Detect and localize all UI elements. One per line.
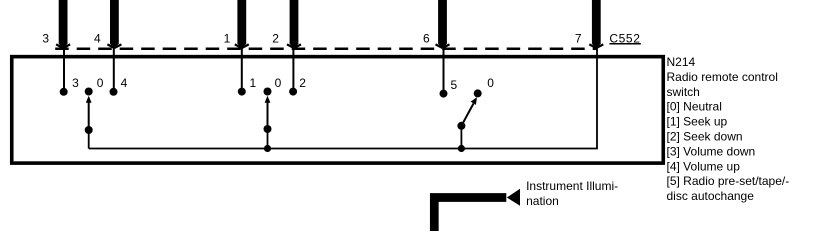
junction dot group 2 common — [264, 145, 271, 152]
svg-text:nation: nation — [526, 194, 559, 208]
svg-text:0: 0 — [97, 76, 104, 90]
wire pin 2 (thick bar) — [287, 0, 301, 48]
svg-text:[5] Radio pre-set/tape/-: [5] Radio pre-set/tape/- — [667, 174, 790, 188]
svg-text:3: 3 — [72, 76, 79, 90]
wire pin 7 (thick bar) — [589, 0, 603, 48]
wire stub pin 4 — [113, 48, 115, 92]
contact dot 0 group 2 — [264, 88, 272, 96]
junction dot group 3 wiper — [457, 122, 465, 130]
svg-text:[3] Volume down: [3] Volume down — [667, 144, 756, 158]
connector C552 dashed line — [55, 48, 597, 51]
wire pin 6 (thick bar) — [436, 0, 450, 48]
svg-text:switch: switch — [667, 85, 700, 99]
svg-text:[0] Neutral: [0] Neutral — [667, 100, 722, 114]
svg-text:0: 0 — [275, 76, 282, 90]
junction dot group 1 wiper — [85, 126, 93, 134]
wire stub pin 1 — [241, 48, 243, 92]
svg-text:0: 0 — [487, 76, 494, 90]
junction dot group 2 wiper — [264, 125, 272, 133]
svg-text:5: 5 — [451, 78, 458, 92]
svg-text:2: 2 — [299, 76, 306, 90]
svg-text:[1] Seek up: [1] Seek up — [667, 115, 728, 129]
svg-text:6: 6 — [423, 31, 430, 45]
component label N214 text block — [667, 55, 790, 203]
wiper arrow group 1 — [86, 96, 92, 130]
wire group 3 wiper to common — [460, 126, 462, 149]
svg-text:4: 4 — [94, 31, 101, 45]
contact dot 0 group 1 — [85, 88, 93, 96]
svg-text:[4] Volume up: [4] Volume up — [667, 159, 741, 173]
svg-text:[2] Seek down: [2] Seek down — [667, 130, 743, 144]
svg-text:4: 4 — [121, 76, 128, 90]
svg-text:disc autochange: disc autochange — [667, 189, 755, 203]
contact dot 4 — [110, 88, 118, 96]
wire stub pin 3 — [63, 48, 65, 92]
label instrument illumination — [526, 179, 618, 208]
contact dot 5 — [440, 90, 448, 98]
wire pin 4 (thick bar) — [107, 0, 121, 48]
wire group 2 wiper to common — [267, 129, 269, 149]
wiper arrow group 2 — [265, 96, 271, 129]
wire instrument illumination (thick L) — [434, 198, 506, 232]
contact dot 2 — [289, 88, 297, 96]
svg-text:1: 1 — [224, 31, 231, 45]
svg-text:7: 7 — [575, 31, 582, 45]
wire group 1 wiper to common — [88, 130, 90, 149]
switch box N214 — [12, 57, 664, 163]
common wire to pin 7 — [89, 48, 597, 149]
wiper arrow group 3 (diagonal) — [461, 97, 477, 126]
wire stub pin 2 — [292, 48, 294, 92]
svg-text:Instrument Illumi-: Instrument Illumi- — [526, 179, 618, 193]
svg-text:2: 2 — [272, 31, 279, 45]
wire stub pin 6 — [443, 48, 445, 93]
contact dot 1 — [238, 88, 246, 96]
junction dot group 3 common — [458, 145, 465, 152]
svg-text:3: 3 — [42, 31, 49, 45]
connector label C552 — [609, 31, 640, 45]
contact dot 0 group 3 — [474, 89, 482, 97]
arrow instrument illumination — [507, 189, 520, 206]
wire pin 3 (thick bar) — [56, 0, 70, 48]
svg-text:Radio remote control: Radio remote control — [667, 70, 778, 84]
svg-text:N214: N214 — [667, 55, 696, 69]
contact dot 3 — [60, 88, 68, 96]
svg-text:1: 1 — [250, 76, 257, 90]
wire pin 1 (thick bar) — [235, 0, 249, 48]
